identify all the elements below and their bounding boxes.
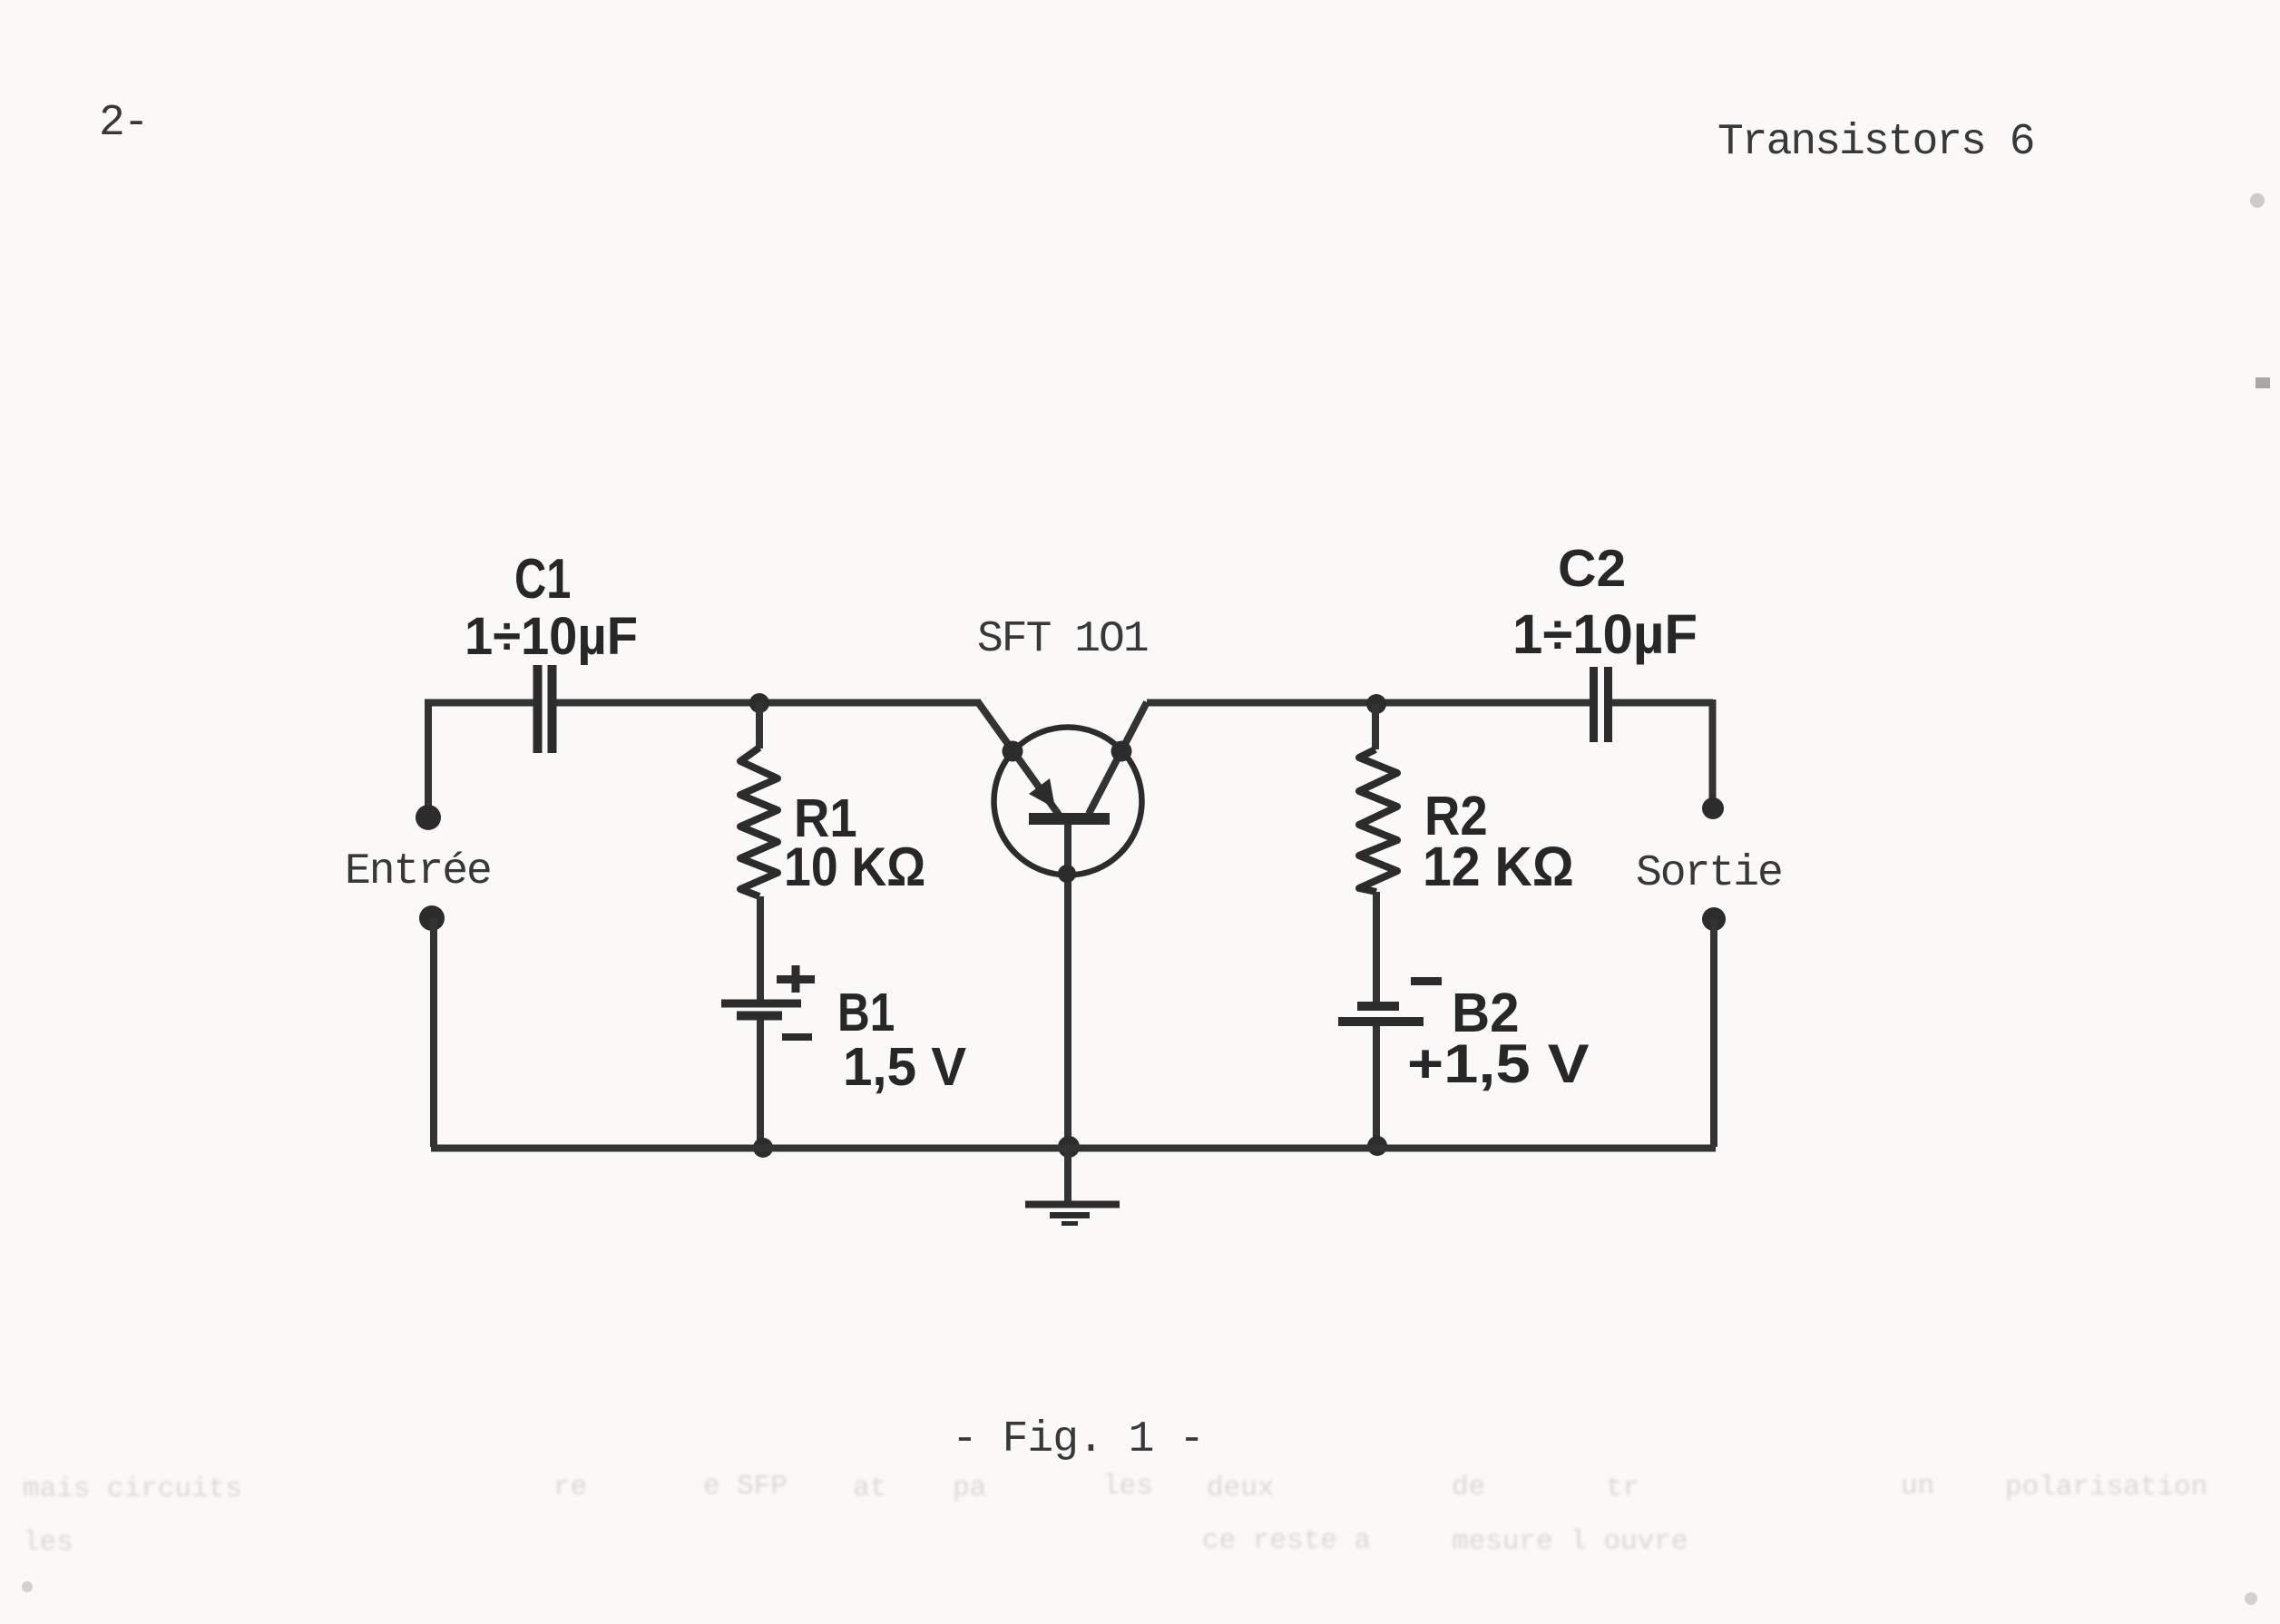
svg-text:Sortie: Sortie <box>1636 849 1782 898</box>
resistor R2 zigzag <box>1359 749 1397 892</box>
battery B2 polarity "−" <box>1411 977 1442 985</box>
battery B2 negative plate (short) <box>1357 1002 1399 1011</box>
ground bar 1 <box>1025 1201 1120 1208</box>
svg-text:mais circuits: mais circuits <box>23 1473 242 1505</box>
wire: B2 to bottom rail <box>1373 1026 1380 1147</box>
svg-text:1÷10µF: 1÷10µF <box>465 607 638 667</box>
resistor R1 zigzag <box>740 748 778 896</box>
wire: ground stem <box>1064 1147 1072 1204</box>
svg-text:polarisation: polarisation <box>2005 1472 2207 1503</box>
svg-text:de: de <box>1452 1472 1485 1503</box>
node: junction dot at R1 top <box>749 693 769 713</box>
transistor Q1 emitter arrowhead <box>1029 778 1055 808</box>
ground bar 2 <box>1050 1212 1090 1218</box>
svg-text:pa: pa <box>953 1472 986 1504</box>
capacitor C2 left plate <box>1590 667 1598 742</box>
svg-text:mesure l ouvre: mesure l ouvre <box>1452 1526 1688 1558</box>
battery B1 positive plate (long) <box>721 1000 801 1008</box>
battery B2 positive plate (long) <box>1338 1017 1424 1026</box>
svg-text:+1,5 V: +1,5 V <box>1407 1032 1590 1094</box>
battery B1 polarity "+" <box>777 965 815 993</box>
capacitor C2 right plate <box>1604 667 1612 742</box>
svg-text:re: re <box>553 1472 587 1503</box>
node: Sortie upper terminal dot <box>1702 797 1724 819</box>
svg-text:les: les <box>23 1527 73 1559</box>
battery B1 polarity "−" <box>782 1033 812 1041</box>
svg-text:Transistors 6: Transistors 6 <box>1717 118 2033 167</box>
node: emitter lead / circle crossing dot <box>1003 741 1023 762</box>
wire: base lead down to bottom rail <box>1064 825 1072 1147</box>
capacitor C1 left plate <box>533 665 543 753</box>
node: junction dot base lead at bottom rail <box>1058 1136 1080 1158</box>
wire: top rail left corner segment (Entrée up to C1) <box>428 703 534 818</box>
wire: R2 bottom lead to battery B2 <box>1373 892 1380 1002</box>
svg-text:deux: deux <box>1207 1472 1274 1504</box>
svg-text:ce reste a: ce reste a <box>1202 1525 1371 1557</box>
svg-text:at: at <box>853 1472 886 1504</box>
svg-text:un: un <box>1901 1471 1934 1502</box>
wire: top rail segment from transistor to C2 <box>1147 699 1590 707</box>
wire: top rail segment from C1 to transistor <box>557 699 982 707</box>
svg-text:1,5 V: 1,5 V <box>843 1038 966 1098</box>
wire: B1 to bottom rail <box>757 1020 764 1147</box>
node: dot at transistor circle bottom <box>1058 865 1076 883</box>
node: junction dot B1 at bottom rail <box>753 1138 773 1158</box>
wire: Entrée lower lead to bottom rail <box>430 918 437 1147</box>
svg-text:10 KΩ: 10 KΩ <box>784 836 925 898</box>
svg-text:12 KΩ: 12 KΩ <box>1423 835 1574 897</box>
svg-text:C1: C1 <box>514 547 571 610</box>
wire: R1 top lead <box>756 703 763 748</box>
node: junction dot at R2 top <box>1366 694 1386 714</box>
wire: Sortie lower lead to bottom rail <box>1710 919 1717 1147</box>
svg-text:B1: B1 <box>837 983 895 1042</box>
node: Entrée upper terminal dot <box>416 805 441 830</box>
svg-text:1÷10µF: 1÷10µF <box>1512 602 1698 665</box>
wire: R2 top lead <box>1372 704 1379 749</box>
svg-text:e SFP: e SFP <box>703 1471 788 1502</box>
node: Entrée lower terminal dot <box>419 905 445 931</box>
wire: R1 bottom lead to battery B1 <box>757 896 764 1000</box>
transistor Q1 body circle <box>994 728 1142 876</box>
transistor Q1 collector lead <box>1089 702 1147 814</box>
svg-text:SFT 1O1: SFT 1O1 <box>977 615 1148 664</box>
svg-text:C2: C2 <box>1558 539 1626 597</box>
svg-text:Entrée: Entrée <box>345 847 491 896</box>
wire: top rail from C2 to Sortie corner <box>1612 699 1713 808</box>
battery B1 negative plate (short) <box>737 1012 782 1021</box>
node: collector lead / circle crossing dot <box>1111 741 1132 762</box>
ground bar 3 <box>1062 1221 1078 1226</box>
svg-text:2-: 2- <box>99 99 148 148</box>
svg-text:- Fig. 1 -: - Fig. 1 - <box>952 1415 1204 1464</box>
transistor Q1 emitter lead <box>978 702 1059 815</box>
transistor Q1 base bar <box>1029 813 1110 825</box>
svg-text:tr: tr <box>1606 1472 1639 1504</box>
node: junction dot B2 at bottom rail <box>1367 1136 1387 1156</box>
capacitor C1 right plate <box>548 665 557 753</box>
svg-text:les: les <box>1102 1471 1153 1502</box>
node: Sortie lower terminal dot <box>1702 907 1726 931</box>
wire: bottom rail <box>431 1145 1716 1152</box>
